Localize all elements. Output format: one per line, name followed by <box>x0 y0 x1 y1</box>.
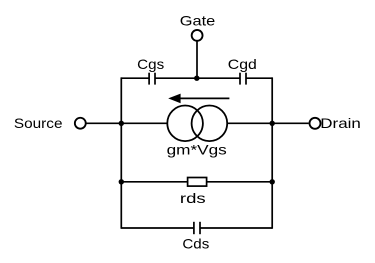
wire bottom-right segment <box>200 227 272 229</box>
wire top-middle segment <box>155 77 240 79</box>
wire drain junction to terminal <box>272 122 309 124</box>
node source junction <box>119 121 124 126</box>
current source gm*Vgs <box>167 106 227 142</box>
wire gate vertical <box>196 42 198 79</box>
wire right vertical <box>271 77 273 228</box>
capacitor Cds <box>194 222 200 234</box>
svg-text:Cgd: Cgd <box>228 56 257 72</box>
terminal Source <box>75 118 86 129</box>
svg-text:Drain: Drain <box>320 115 361 131</box>
node rds left junction <box>119 179 124 184</box>
resistor rds <box>188 178 207 187</box>
svg-text:Cgs: Cgs <box>137 56 164 72</box>
wire rds left segment <box>121 181 187 183</box>
terminal Drain <box>310 118 321 129</box>
capacitor Cgs <box>149 73 155 85</box>
capacitor Cgd <box>240 73 246 85</box>
svg-text:Cds: Cds <box>182 235 209 251</box>
svg-text:Source: Source <box>14 115 63 131</box>
wire bottom-left segment <box>121 227 194 229</box>
arrow current direction <box>168 94 229 104</box>
node gate/top junction <box>194 76 199 81</box>
svg-text:gm*Vgs: gm*Vgs <box>167 142 227 158</box>
wire current-source to drain junction <box>227 122 272 124</box>
wire source to current-source <box>86 122 167 124</box>
node drain junction <box>270 121 275 126</box>
wire left vertical <box>120 77 122 228</box>
terminal Gate <box>192 30 203 41</box>
wire top-left segment <box>121 77 149 79</box>
svg-text:Gate: Gate <box>180 12 216 28</box>
node rds right junction <box>270 179 275 184</box>
wire rds right segment <box>207 181 273 183</box>
svg-text:rds: rds <box>180 190 206 206</box>
wire top-right segment <box>246 77 272 79</box>
